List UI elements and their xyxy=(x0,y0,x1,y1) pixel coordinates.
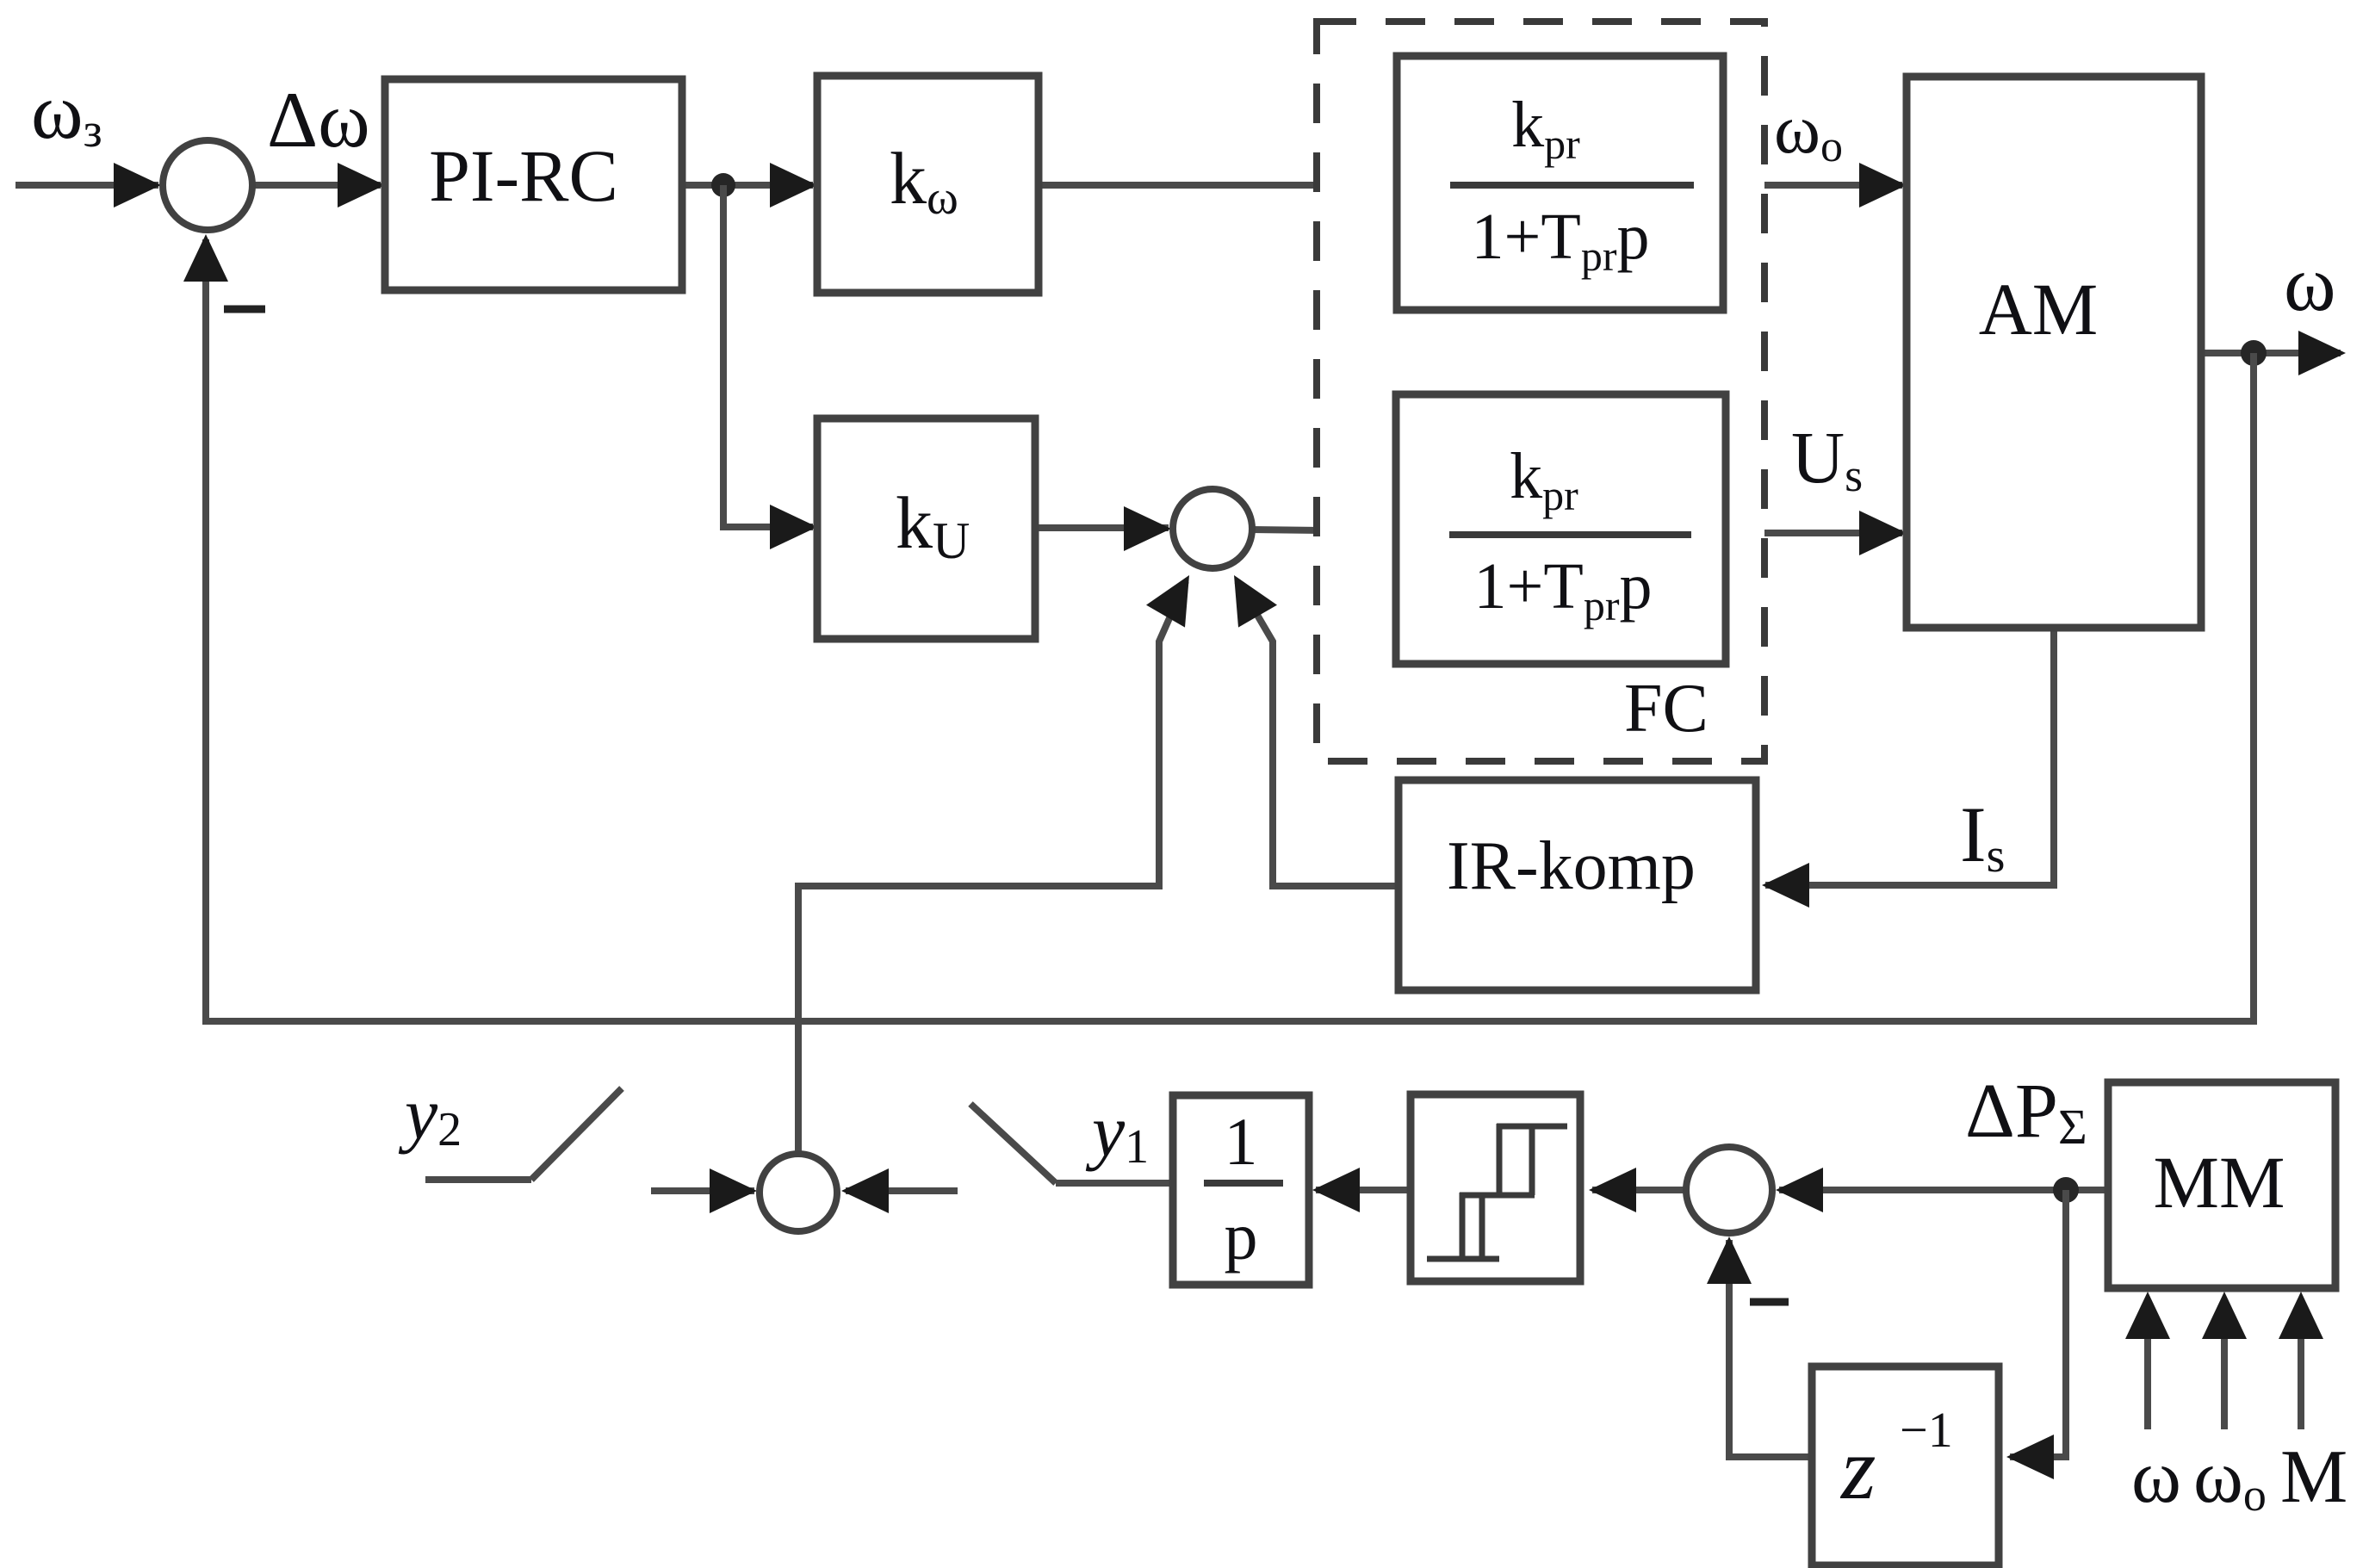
relay glyph upper step left xyxy=(1497,1124,1503,1195)
block relay with hysteresis xyxy=(1411,1094,1580,1281)
svg-text:IR-komp: IR-komp xyxy=(1447,828,1696,904)
svg-text:MM: MM xyxy=(2154,1141,2285,1224)
arrowhead z-1 into S4 bottom xyxy=(1707,1236,1752,1284)
wire MM input omega0 xyxy=(2221,1335,2228,1429)
wire y2 switch input xyxy=(425,1176,531,1183)
wire Is from AM bottom to IR-komp xyxy=(1765,626,2054,885)
block PI-RC xyxy=(385,79,682,290)
minus sign at S4 xyxy=(1750,1298,1789,1306)
wire y1 to S3 xyxy=(846,1187,958,1194)
block z-1 delay xyxy=(1812,1367,1999,1565)
label PI-RC xyxy=(429,134,618,217)
arrowhead into 1/p xyxy=(1312,1168,1360,1212)
label kU xyxy=(896,481,970,569)
label omega under MM xyxy=(2131,1435,2181,1519)
arrowhead into S4 right xyxy=(1776,1168,1823,1212)
arrowhead into z-1 xyxy=(2006,1435,2054,1479)
label numerator kpr 1 xyxy=(1511,89,1580,168)
label FC xyxy=(1624,671,1709,747)
wire S4 to relay xyxy=(1592,1187,1684,1193)
wire MM input omega xyxy=(2144,1335,2151,1429)
svg-text:−1: −1 xyxy=(1900,1402,1953,1458)
arrowhead into FC block 1 xyxy=(1349,163,1397,208)
svg-text:PI-RC: PI-RC xyxy=(429,134,618,217)
dashed box FC (frequency converter) xyxy=(1317,22,1764,761)
block IR-komp xyxy=(1398,780,1756,990)
fraction bar 1 xyxy=(1450,182,1694,189)
wire N3 down to z-1 box xyxy=(2010,1190,2066,1457)
switch y2 blade xyxy=(531,1088,622,1180)
svg-text:ω: ω xyxy=(2131,1435,2181,1519)
wire relay to 1/p xyxy=(1316,1187,1409,1193)
relay glyph top level xyxy=(1497,1124,1567,1130)
node N1 branch dot xyxy=(711,173,735,197)
block AM (induction motor) xyxy=(1907,77,2201,628)
minus sign at S1 xyxy=(224,306,265,313)
arrowhead feedback into S1 bottom xyxy=(183,234,228,282)
label IR-komp xyxy=(1447,828,1696,904)
arrowhead into PI-RC xyxy=(338,163,385,208)
block integrator 1/p xyxy=(1173,1095,1309,1285)
wire input to summing junction S1 xyxy=(16,182,158,189)
node N3 branch dot on MM output xyxy=(2053,1177,2079,1203)
label AM xyxy=(1979,268,2099,350)
wire S1 to PI-RC xyxy=(254,182,381,189)
fraction bar 2 xyxy=(1449,531,1691,538)
relay glyph middle level xyxy=(1460,1193,1535,1199)
arrowhead Is into IR-komp xyxy=(1762,863,1809,908)
label numerator kpr 2 xyxy=(1510,440,1578,519)
label delta P sigma xyxy=(1965,1069,2087,1155)
arrowhead left leg into S2 xyxy=(1146,575,1189,628)
svg-text:1: 1 xyxy=(1225,1104,1258,1179)
summing junction S4 xyxy=(1686,1147,1772,1233)
svg-text:FC: FC xyxy=(1624,671,1709,747)
arrowhead into S2 xyxy=(1124,506,1171,551)
label z-1 xyxy=(1839,1402,1953,1518)
arrowhead into FC block 2 xyxy=(1348,509,1395,554)
arrowhead into relay xyxy=(1589,1168,1636,1212)
svg-text:AM: AM xyxy=(1979,268,2099,350)
arrowhead into kU box xyxy=(770,505,817,549)
label denominator 1+Tpr p 1 xyxy=(1472,201,1650,280)
label y1 xyxy=(1085,1089,1149,1174)
relay glyph bottom level xyxy=(1427,1256,1499,1262)
wire PI-RC to node N1 xyxy=(680,182,813,189)
label MM xyxy=(2154,1141,2285,1224)
switch y1 blade xyxy=(971,1104,1056,1183)
svg-text:z: z xyxy=(1839,1419,1876,1518)
wire k-omega to FC block 1 xyxy=(1039,182,1392,189)
wire S2 to FC block 2 xyxy=(1250,530,1392,531)
label Is xyxy=(1960,790,2005,883)
label Us xyxy=(1791,416,1863,501)
wire node N1 down and to kU box xyxy=(723,185,813,527)
block k-omega xyxy=(817,76,1039,293)
wire omega feedback to S1 xyxy=(206,239,2254,1021)
label integrator denominator p xyxy=(1225,1199,1258,1274)
arrowhead right leg into S2 xyxy=(1234,575,1277,628)
svg-text:1+Tprp: 1+Tprp xyxy=(1474,550,1653,629)
wire z-1 output up to S4 xyxy=(1729,1240,1812,1457)
block FC transfer function 2 xyxy=(1396,394,1726,664)
arrowhead into S1 xyxy=(114,163,161,208)
arrowhead omega0 into MM xyxy=(2202,1292,2247,1339)
wire IR-komp output up to S2 (right leg) xyxy=(1237,581,1398,886)
block kU xyxy=(817,418,1035,639)
arrowhead into S3 left xyxy=(710,1168,757,1213)
wire from S3 up to S2 (left leg) xyxy=(798,581,1186,1154)
label denominator 1+Tpr p 2 xyxy=(1474,550,1653,629)
wire AM output omega xyxy=(2199,350,2341,356)
arrowhead omega into MM xyxy=(2125,1292,2170,1339)
label y2 xyxy=(398,1072,462,1156)
label omega0 under MM xyxy=(2193,1435,2267,1521)
block MM (power model) xyxy=(2108,1082,2335,1288)
wire y1 switch to 1/p box xyxy=(1056,1180,1173,1187)
label delta omega xyxy=(267,76,370,164)
summing junction S2 xyxy=(1173,489,1252,568)
wire kU to summing junction S2 xyxy=(1035,524,1169,531)
label M under MM xyxy=(2280,1435,2347,1519)
svg-text:M: M xyxy=(2280,1435,2347,1519)
label k-omega xyxy=(890,137,958,225)
wire y2 to S3 xyxy=(651,1187,754,1194)
label omega_o xyxy=(1774,90,1843,171)
arrowhead into k-omega box xyxy=(770,163,817,208)
svg-text:ω: ω xyxy=(2284,239,2336,327)
relay glyph upper step right xyxy=(1529,1124,1535,1195)
integrator fraction bar xyxy=(1204,1180,1283,1187)
label integrator numerator 1 xyxy=(1225,1104,1258,1179)
relay glyph lower step left xyxy=(1460,1193,1466,1259)
arrowhead omega output xyxy=(2298,331,2346,375)
node N2 branch dot on omega output xyxy=(2241,340,2267,366)
arrowhead into AM top input xyxy=(1859,163,1907,208)
block FC transfer function 1 xyxy=(1397,56,1723,310)
summing junction S3 xyxy=(760,1154,837,1231)
label omega output xyxy=(2284,239,2336,327)
summing junction S1 xyxy=(163,140,252,230)
label omega_z input xyxy=(31,67,102,158)
wire FC block2 to AM (Us) xyxy=(1724,530,1902,536)
arrowhead M into MM xyxy=(2279,1292,2323,1339)
arrowhead into S3 right xyxy=(841,1168,889,1213)
wire FC block1 to AM (omega_o) xyxy=(1721,182,1902,189)
arrowhead into AM bottom input xyxy=(1859,511,1907,555)
svg-text:Δω: Δω xyxy=(267,76,370,164)
svg-text:p: p xyxy=(1225,1199,1258,1274)
relay glyph lower step right xyxy=(1479,1193,1485,1259)
svg-text:1+Tprp: 1+Tprp xyxy=(1472,201,1650,280)
wire MM input M xyxy=(2298,1335,2304,1429)
wire MM to S4 xyxy=(1779,1187,2106,1193)
